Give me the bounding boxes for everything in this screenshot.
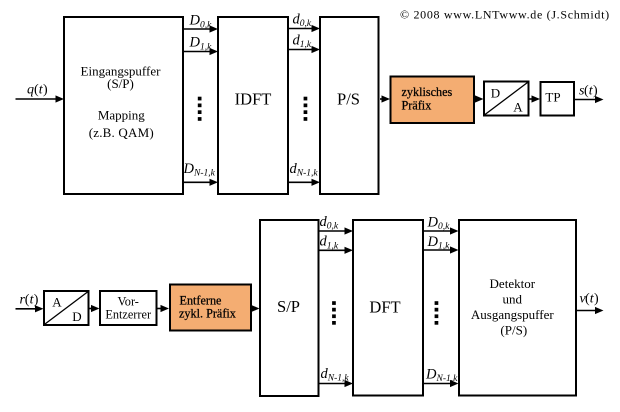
signal label r(t) — [20, 293, 39, 308]
svg-text:q: q — [27, 83, 34, 98]
block P/S — [320, 17, 379, 194]
svg-text:Entferne: Entferne — [180, 293, 222, 307]
dots between S/P and DFT — [332, 301, 336, 325]
block TP — [541, 82, 575, 116]
signal label D_0,k (bottom) — [427, 214, 451, 232]
wire d1k IDFT to P/S — [289, 46, 320, 53]
wire D1k DFT to Detektor — [424, 246, 459, 253]
signal label d_1,k (bottom) — [320, 234, 339, 252]
signal label D_N-1,k — [183, 161, 216, 179]
block S/P — [260, 220, 319, 396]
wire d0k IDFT to P/S — [289, 25, 320, 32]
signal label D_1,k (bottom) — [427, 234, 451, 252]
wire Entferne to S/P — [251, 305, 260, 312]
block D/A converter — [484, 82, 529, 116]
wire d0k S/P to DFT — [320, 227, 354, 234]
copyright notice — [400, 8, 610, 22]
signal label q(t) — [27, 83, 48, 98]
wire zyklisches Praefix to D/A — [475, 95, 484, 102]
svg-text:D: D — [491, 85, 500, 100]
svg-text:(P/S): (P/S) — [500, 322, 527, 337]
wire Vor-Entzerrer to Entferne zykl. Praefix — [158, 305, 170, 312]
wire s(t) output — [575, 96, 604, 103]
block IDFT — [218, 17, 288, 194]
svg-text:): ) — [594, 292, 599, 307]
dots between IDFT and P/S — [304, 97, 308, 121]
wire d1k S/P to DFT — [320, 247, 354, 254]
block Entferne zykl. Praefix (orange) — [170, 285, 251, 331]
wire D0k block1 to IDFT — [184, 25, 218, 32]
svg-text:Präfix: Präfix — [402, 98, 432, 112]
svg-text:A: A — [513, 99, 523, 114]
block A/D converter — [44, 291, 89, 325]
svg-text:D: D — [72, 309, 81, 324]
svg-text:DFT: DFT — [369, 298, 400, 317]
block Vor-Entzerrer — [100, 291, 157, 325]
signal label D_0,k — [189, 13, 213, 31]
svg-text:Mapping: Mapping — [98, 108, 145, 123]
wire D1k block1 to IDFT — [184, 48, 218, 55]
svg-text:Detektor: Detektor — [490, 276, 536, 291]
dots between DFT and Detektor — [435, 301, 439, 325]
svg-text:): ) — [593, 84, 598, 99]
svg-text:© 2008 www.LNTwww.de (J.Schmid: © 2008 www.LNTwww.de (J.Schmidt) — [400, 8, 610, 22]
svg-text:zykl. Präfix: zykl. Präfix — [179, 307, 236, 321]
svg-text:Ausgangspuffer: Ausgangspuffer — [471, 307, 554, 322]
svg-text:IDFT: IDFT — [235, 90, 272, 109]
svg-text:Entzerrer: Entzerrer — [105, 308, 151, 322]
signal label d_N-1,k — [290, 161, 319, 179]
wire dN-1k S/P to DFT — [320, 380, 354, 387]
svg-text:): ) — [34, 293, 39, 308]
svg-text:zyklisches: zyklisches — [402, 85, 453, 99]
block DFT — [353, 220, 423, 396]
wire D0k DFT to Detektor — [424, 227, 459, 234]
svg-text:und: und — [503, 291, 523, 306]
signal label D_N-1,k (bottom) — [425, 366, 458, 384]
wire v(t) output — [577, 307, 604, 314]
signal label d_N-1,k (bottom) — [321, 366, 350, 384]
svg-text:TP: TP — [545, 90, 560, 105]
signal label D_1,k — [189, 35, 213, 53]
signal label d_0,k — [293, 11, 312, 29]
signal label d_1,k — [293, 33, 312, 51]
block Detektor und Ausgangspuffer (P/S) — [459, 220, 576, 396]
wire q(t) input — [16, 95, 65, 102]
wire A/D to Vor-Entzerrer — [90, 305, 100, 312]
wire DN-1k DFT to Detektor — [424, 380, 459, 387]
svg-text:A: A — [52, 295, 62, 310]
dots between block1 and IDFT — [198, 97, 202, 121]
wire D/A to TP — [530, 95, 541, 102]
signal label d_0,k (bottom) — [320, 214, 339, 232]
block Eingangspuffer (S/P) Mapping (z.B. QAM) — [64, 17, 183, 194]
wire P/S to zyklisches Praefix — [380, 95, 390, 102]
signal label s(t) — [579, 84, 598, 99]
svg-text:): ) — [43, 83, 48, 98]
wire r(t) input — [16, 305, 44, 312]
signal label v(t) — [580, 292, 600, 307]
svg-text:P/S: P/S — [337, 90, 360, 109]
svg-text:S/P: S/P — [277, 297, 300, 316]
wire DN-1k block1 to IDFT — [184, 179, 218, 186]
block zyklisches Praefix (orange) — [391, 77, 475, 124]
svg-text:(z.B. QAM): (z.B. QAM) — [89, 125, 154, 140]
svg-text:(S/P): (S/P) — [107, 76, 134, 91]
svg-text:Vor-: Vor- — [118, 294, 139, 308]
wire dN-1k IDFT to P/S — [289, 179, 320, 186]
